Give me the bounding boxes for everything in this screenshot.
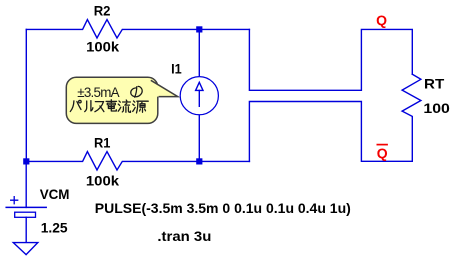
svg-text:100: 100	[423, 100, 450, 116]
svg-text:Q: Q	[376, 12, 387, 28]
svg-text:1.25: 1.25	[41, 219, 68, 235]
svg-text:±3.5mA: ±3.5mA	[77, 85, 119, 100]
svg-text:R1: R1	[94, 135, 111, 151]
svg-text:RT: RT	[424, 76, 445, 92]
svg-text:.tran 3u: .tran 3u	[157, 229, 211, 244]
svg-text:100k: 100k	[86, 173, 119, 189]
svg-text:I1: I1	[171, 61, 182, 77]
svg-text:100k: 100k	[86, 39, 119, 55]
svg-text:PULSE(-3.5m 3.5m 0 0.1u 0.1u 0: PULSE(-3.5m 3.5m 0 0.1u 0.1u 0.4u 1u)	[95, 200, 351, 216]
svg-text:VCM: VCM	[40, 186, 70, 202]
svg-text:R2: R2	[94, 2, 111, 18]
svg-text:Q: Q	[377, 145, 388, 161]
